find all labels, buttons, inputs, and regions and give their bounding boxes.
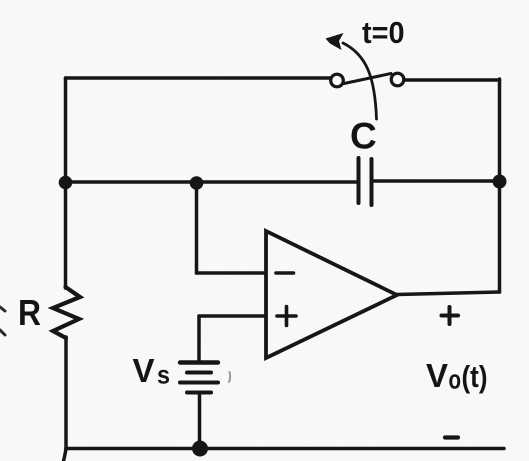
source Vs battery plate long bottom <box>180 381 218 385</box>
switch S1 blade <box>344 74 391 84</box>
wire left rail lower (resistor to bottom wire) <box>64 337 68 448</box>
stray ink mark near Vs <box>229 372 230 382</box>
wire left rail upper (top wire down to resistor) <box>64 78 68 288</box>
stray edge mark lower <box>0 330 5 335</box>
svg-text:o: o <box>449 365 462 395</box>
stray edge mark upper <box>0 307 5 311</box>
wire inverting input branch horizontal <box>197 271 266 275</box>
switch S1 left contact <box>331 74 344 87</box>
svg-text:V: V <box>426 357 448 394</box>
wire left rail tail below bottom wire <box>64 448 67 461</box>
op-amp U1 inverting input minus sign <box>276 271 294 275</box>
wire non-inverting input horizontal <box>199 314 266 318</box>
svg-text:s: s <box>157 360 170 390</box>
switch S1 actuation arc <box>343 43 377 119</box>
output minus polarity sign <box>445 435 458 439</box>
svg-text:R: R <box>18 292 41 333</box>
op-amp U1 triangle <box>266 231 397 358</box>
source Vs battery plate long top <box>180 360 218 364</box>
op-amp U1 non-inverting input plus sign <box>277 307 296 326</box>
output plus polarity sign <box>442 307 459 324</box>
wire right rail vertical <box>498 79 502 292</box>
svg-text:C: C <box>350 116 377 157</box>
wire non-inverting input down to source Vs <box>197 316 201 360</box>
node D (bottom rail / source junction) <box>192 441 208 457</box>
source Vs battery plate short upper <box>187 371 211 375</box>
wire top-left horizontal (left rail to switch) <box>66 76 332 80</box>
switch S1 right contact <box>391 73 404 86</box>
svg-text:V: V <box>133 352 155 389</box>
switch S1 arrowhead <box>326 33 344 50</box>
node B (inverting branch junction) <box>190 176 204 190</box>
capacitor C1 left plate <box>357 158 361 203</box>
wire top-right horizontal (switch to right rail) <box>403 78 500 82</box>
wire source Vs to bottom node <box>198 394 202 448</box>
node C (right rail / feedback junction) <box>493 175 507 189</box>
wire feedback horizontal left (node A to capacitor) <box>66 180 357 184</box>
node A (left rail / feedback junction) <box>59 176 73 190</box>
svg-text:t=0: t=0 <box>362 15 405 50</box>
capacitor C1 right plate <box>370 159 374 205</box>
resistor R zigzag <box>53 287 80 338</box>
wire op-amp output to right rail <box>397 292 500 295</box>
source Vs battery plate short lower <box>187 391 211 395</box>
svg-text:(t): (t) <box>462 359 488 394</box>
wire inverting input branch vertical <box>195 183 199 273</box>
wire feedback horizontal right (capacitor to right rail) <box>374 179 500 183</box>
wire bottom rail <box>67 447 504 451</box>
